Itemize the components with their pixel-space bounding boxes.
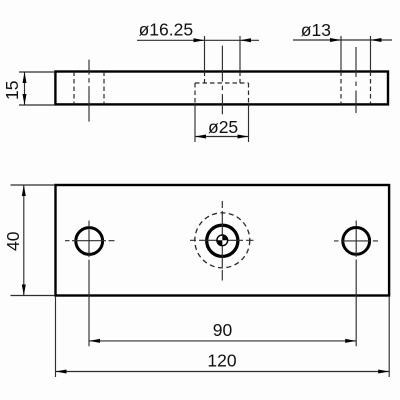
dimension d25 arrow left-pointing [195, 135, 206, 139]
side view right hole hidden lines [341, 72, 371, 105]
dimension d13 arrow right-pointing [330, 38, 341, 42]
dimension d13 extension lines [341, 36, 371, 71]
dimension 120 arrow right-pointing [378, 370, 389, 374]
dimension 40 dimension line [23, 185, 25, 296]
dimension 40 arrow up [22, 185, 26, 196]
dimension d16.25 arrow right-pointing [194, 38, 205, 42]
side view center hole centerline [221, 46, 223, 115]
dimension 15 arrow up [23, 72, 27, 83]
front view left hole horizontal centerline [65, 240, 115, 242]
front view center hole horizontal centerline [190, 239, 254, 241]
front view left hole vertical centerline [88, 221, 90, 347]
front view right hole horizontal centerline [334, 240, 378, 242]
svg-text:ø25: ø25 [208, 117, 238, 137]
dimension 15 arrow down [23, 94, 27, 105]
dimension 90 arrow left-pointing [89, 339, 100, 343]
dimension d16.25 extension lines [205, 36, 241, 71]
front view center hole vertical centerline [221, 201, 223, 281]
svg-text:120: 120 [207, 351, 236, 371]
dimension 15 extension lines [19, 72, 55, 105]
dimension 90 dimension line [89, 340, 356, 342]
front view left hole [76, 228, 103, 255]
dimension 120 arrow left-pointing [56, 370, 67, 374]
dimension 40 extension lines [11, 185, 56, 296]
dimension d25 arrow right-pointing [238, 135, 249, 139]
dimension d16.25 arrow left-pointing [240, 38, 251, 42]
side view counterbore hidden lines [195, 83, 249, 104]
dimension d25 extension lines [195, 104, 249, 142]
front view right hole vertical centerline [355, 221, 357, 347]
front view center hole [207, 225, 238, 256]
dimension d13 arrow left-pointing [371, 38, 382, 42]
svg-text:ø16.25: ø16.25 [139, 20, 193, 40]
svg-text:15: 15 [2, 81, 22, 100]
side view right hole centerline [355, 47, 357, 113]
dimension 40 arrow down [22, 285, 26, 296]
side view center hole hidden lines [205, 72, 241, 84]
side view left hole centerline [88, 60, 90, 122]
svg-text:40: 40 [3, 231, 23, 251]
front view center hole target dot [217, 235, 228, 246]
dimension 120 extension lines [56, 297, 390, 377]
front view right hole [343, 228, 370, 255]
dimension 15 dimension line [24, 72, 26, 105]
svg-text:ø13: ø13 [301, 20, 331, 40]
front view plate outline [56, 185, 390, 296]
dimension 120 dimension line [56, 371, 390, 373]
dimension d25 dimension line [195, 136, 249, 138]
dimension d16.25 dimension line [137, 39, 259, 41]
side view left hole hidden lines [74, 72, 104, 105]
dimension d13 dimension line [293, 39, 392, 41]
svg-text:90: 90 [213, 320, 233, 340]
dimension 90 arrow right-pointing [345, 339, 356, 343]
side view plate outline [55, 72, 388, 105]
front view counterbore dashed circle [195, 213, 250, 268]
